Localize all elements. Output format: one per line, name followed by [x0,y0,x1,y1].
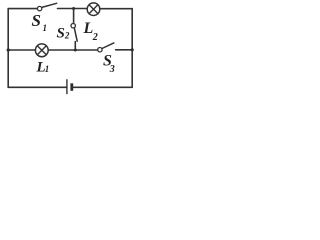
wire bottom-left segment [8,86,67,88]
node junction middle-left [7,48,10,51]
wire top-right segment [100,8,132,10]
svg-text:S: S [57,26,65,42]
svg-text:2: 2 [92,32,98,43]
label L1 [36,60,50,76]
node junction top branch [72,7,75,10]
wire S2 branch upper [73,9,75,24]
wire top-middle segment [58,8,88,10]
switch S3 [98,43,114,52]
battery [67,80,73,94]
node junction middle-right [131,48,134,51]
wire top-left segment [8,8,37,10]
wire middle-center segment [48,49,97,51]
switch S1 [37,3,56,11]
node junction middle branch [74,49,77,52]
svg-text:1: 1 [43,23,48,33]
switch S2 [71,24,77,42]
label L2 [83,20,98,43]
wire bottom-right segment [73,86,132,88]
label S2 [57,26,70,42]
label S3 [103,53,115,76]
svg-text:1: 1 [45,64,50,74]
wire left edge [7,9,9,88]
label S1 [32,11,48,33]
wire right edge [131,9,133,88]
svg-text:2: 2 [64,30,70,40]
svg-text:S: S [32,11,41,30]
wire middle-left segment [8,49,35,51]
lamp L2 [87,3,100,16]
lamp L1 [35,44,48,57]
wire S2 branch lower [74,42,76,50]
wire middle-right segment [116,49,133,51]
svg-text:3: 3 [109,64,115,75]
